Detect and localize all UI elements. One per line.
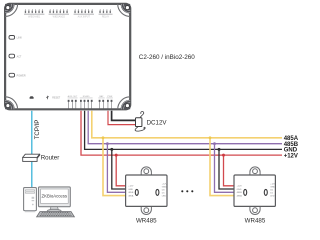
svg-text:AUX INPUT: AUX INPUT bbox=[78, 16, 91, 19]
svg-text:GND: GND bbox=[270, 187, 275, 189]
branch to reader 1: yellow bbox=[103, 138, 126, 196]
wire TCP/IP (cyan) board to router bbox=[31, 111, 33, 155]
svg-text:+12V: +12V bbox=[162, 184, 168, 186]
svg-text:ZKBioAccess: ZKBioAccess bbox=[42, 194, 68, 199]
WR485 reader 1 bbox=[126, 167, 168, 215]
bus wire 485B purple bbox=[88, 111, 282, 144]
corner bracket bottom-left bbox=[5, 97, 18, 110]
LED 2 bbox=[9, 54, 22, 58]
svg-text:485A: 485A bbox=[237, 194, 243, 197]
PC keyboard bbox=[37, 212, 75, 217]
svg-text:+12V: +12V bbox=[284, 153, 298, 159]
junction dots reader 2 bbox=[209, 136, 212, 139]
DC power wire black (board to plug) bbox=[112, 111, 136, 121]
svg-text:RESET: RESET bbox=[52, 96, 61, 99]
DC power wire red bbox=[108, 111, 136, 125]
top terminal group 2 bbox=[49, 9, 69, 18]
svg-text:AUX OUT: AUX OUT bbox=[68, 95, 78, 98]
LED 1 bbox=[9, 36, 22, 40]
svg-text:WIEGAND1: WIEGAND1 bbox=[28, 16, 41, 19]
PC monitor bbox=[39, 187, 71, 213]
corner bracket top-left bbox=[5, 4, 18, 17]
svg-text:GND: GND bbox=[237, 189, 242, 191]
svg-text:TCP/IP: TCP/IP bbox=[34, 120, 41, 140]
branch to reader 2: black bbox=[219, 149, 234, 189]
svg-text:POWER: POWER bbox=[17, 74, 26, 77]
svg-text:485B: 485B bbox=[128, 192, 134, 194]
bottom terminal group B (2 pins, unused) bbox=[98, 95, 104, 109]
svg-text:LINK: LINK bbox=[17, 37, 23, 40]
usb icon bbox=[46, 96, 48, 100]
wire cyan router to PC bbox=[31, 162, 33, 188]
DC12V plug bbox=[135, 111, 145, 131]
svg-text:GND: GND bbox=[162, 187, 167, 189]
branch to reader 1: purple bbox=[107, 144, 125, 193]
svg-text:BAT: BAT bbox=[99, 95, 104, 98]
junction dots reader 1 bbox=[102, 136, 105, 139]
svg-text:DC12V: DC12V bbox=[147, 120, 168, 127]
svg-text:ACT: ACT bbox=[17, 55, 22, 58]
top terminal group 4 bbox=[99, 9, 113, 18]
WR485 reader 2 bbox=[234, 167, 276, 215]
svg-text:485B: 485B bbox=[237, 192, 243, 194]
svg-text:WR485: WR485 bbox=[245, 217, 266, 224]
svg-text:+12V: +12V bbox=[270, 184, 276, 186]
svg-text:485A: 485A bbox=[128, 194, 134, 197]
svg-text:+12V: +12V bbox=[128, 186, 134, 188]
branch to reader 2: purple bbox=[215, 144, 235, 193]
PC tower bbox=[24, 188, 37, 213]
controller board C2-260 outline bbox=[5, 4, 130, 109]
bus wire +12V red bbox=[81, 111, 282, 155]
branch to reader 1: red bbox=[116, 155, 125, 186]
bottom terminal group X (3 pins, unused) bbox=[68, 95, 78, 109]
svg-text:WIEGAND2: WIEGAND2 bbox=[53, 16, 66, 19]
router bbox=[23, 154, 40, 161]
svg-text:RELAY: RELAY bbox=[102, 16, 110, 19]
svg-text:WR485: WR485 bbox=[136, 217, 157, 224]
svg-text:LED: LED bbox=[270, 196, 275, 198]
bus wire 485A yellow bbox=[92, 111, 282, 138]
bus wire GND black bbox=[85, 111, 282, 150]
corner bracket top-right bbox=[118, 4, 131, 17]
svg-text:C2-260 / inBio2-260: C2-260 / inBio2-260 bbox=[139, 54, 196, 61]
branch to reader 2: red bbox=[224, 155, 235, 186]
ethernet port icon (bottom-left inside board) bbox=[30, 96, 34, 99]
svg-text:+12V: +12V bbox=[237, 186, 243, 188]
bottom terminal group C (power in) bbox=[107, 96, 113, 109]
svg-text:Router: Router bbox=[41, 155, 60, 162]
branch to reader 1: black bbox=[112, 149, 126, 189]
svg-text:LED: LED bbox=[162, 196, 167, 198]
LED 3 bbox=[9, 73, 26, 77]
top terminal group 3 bbox=[74, 9, 94, 18]
corner bracket bottom-right bbox=[118, 97, 131, 110]
branch to reader 2: yellow bbox=[210, 138, 234, 196]
top terminal group 1 bbox=[24, 9, 44, 18]
bottom terminal group A (RS485 out: +12V GND 485B 485A) bbox=[80, 96, 93, 109]
ellipsis dots between readers bbox=[181, 190, 183, 192]
svg-text:GND: GND bbox=[128, 189, 133, 191]
